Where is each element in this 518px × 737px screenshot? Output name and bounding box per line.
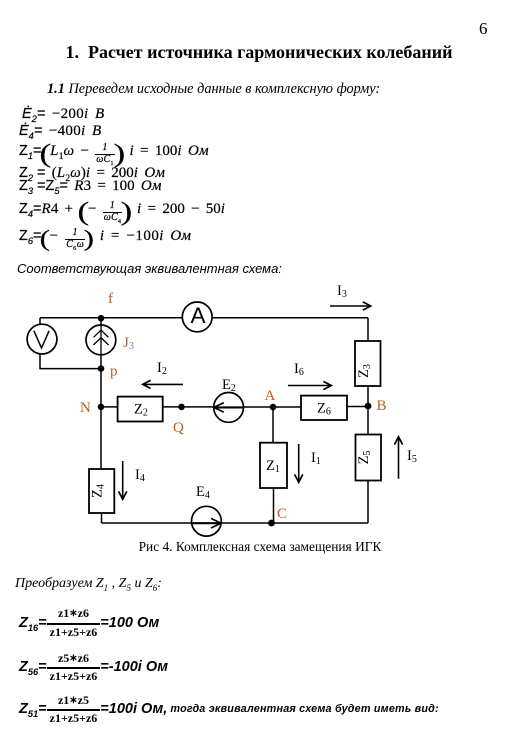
svg-text:E2: E2 <box>222 377 236 394</box>
voltmeter V glyph <box>34 331 49 348</box>
svg-text:A: A <box>190 303 205 328</box>
current source J3 arrows <box>93 325 108 355</box>
svg-text:I1: I1 <box>311 450 321 467</box>
current arrow I5 <box>398 439 400 479</box>
source E2 arrow <box>214 406 243 408</box>
svg-text:Z5: Z5 <box>356 451 373 465</box>
resistor Z6 box <box>301 396 347 420</box>
formula Z6 <box>19 226 191 252</box>
schematic intro <box>17 261 282 276</box>
node C junction dot <box>268 520 275 527</box>
svg-text:I5: I5 <box>407 448 417 465</box>
node f junction dot <box>98 315 105 322</box>
source E4 circle <box>192 506 222 536</box>
wire node A down to Z1 <box>272 407 274 443</box>
node A junction dot <box>270 404 277 411</box>
wire top (f rail) <box>40 317 368 319</box>
wire Z5 to bottom rail <box>367 481 369 524</box>
svg-text:C: C <box>277 506 287 522</box>
section 1.1 heading <box>47 81 380 98</box>
svg-text:B: B <box>377 398 387 414</box>
wire right column top <box>367 318 369 341</box>
wire voltmeter bottom branch to node p <box>40 353 101 369</box>
current source J3 circle <box>86 325 116 355</box>
svg-text:I3: I3 <box>337 283 347 300</box>
svg-text:J3: J3 <box>123 335 134 352</box>
current arrow I1 <box>298 444 300 481</box>
resistor Z3 box <box>355 341 381 386</box>
wire node B to Z5 <box>367 406 369 435</box>
resistor Z1 box <box>260 443 287 488</box>
wire Z6 to node B <box>347 406 368 408</box>
wire Z1 to node C <box>273 488 275 523</box>
equation Z56 <box>19 647 168 687</box>
node B junction dot <box>365 403 372 410</box>
wire E2 to Z6 through node A <box>243 406 301 408</box>
formula E2 <box>22 105 104 123</box>
formula Z3 <box>19 177 162 195</box>
node p junction dot <box>98 365 105 372</box>
svg-text:Z3: Z3 <box>356 364 373 378</box>
equation Z16 <box>19 603 159 643</box>
resistor Z4 box <box>89 469 114 513</box>
current arrow I2 <box>145 383 184 385</box>
formula Z4 <box>19 197 225 227</box>
resistor Z2 box <box>118 397 163 422</box>
current arrow I6 <box>288 385 330 387</box>
ammeter A1 <box>182 302 212 332</box>
page number <box>479 19 488 39</box>
node Q junction dot <box>178 404 185 411</box>
title <box>0 42 518 63</box>
voltmeter V1 <box>27 324 57 354</box>
wire Z3 to node B <box>367 386 369 406</box>
equation Z51 <box>19 689 439 729</box>
formula Z1 <box>19 139 209 169</box>
svg-text:f: f <box>108 291 113 307</box>
wire Z4 bottom stub <box>101 513 103 523</box>
wire bottom rail <box>102 522 369 524</box>
svg-text:I4: I4 <box>135 467 145 484</box>
svg-text:I6: I6 <box>294 361 304 378</box>
transform heading <box>15 576 162 592</box>
formula Z2 <box>19 164 165 182</box>
formula E4 <box>19 122 101 140</box>
svg-text:I2: I2 <box>157 360 167 377</box>
wire N to Z2 <box>101 406 118 408</box>
wire Z2 to E2 through node Q <box>163 406 214 408</box>
svg-text:Q: Q <box>173 420 184 436</box>
wire voltmeter top branch <box>39 318 41 325</box>
current arrow I3 <box>330 305 369 307</box>
svg-text:E4: E4 <box>196 484 210 501</box>
wire left column <box>100 318 102 469</box>
node N junction dot <box>98 404 105 411</box>
svg-text:N: N <box>80 400 91 416</box>
current arrow I4 <box>122 461 124 498</box>
svg-text:Z4: Z4 <box>90 484 107 498</box>
svg-text:p: p <box>110 364 118 380</box>
figure caption <box>0 539 518 555</box>
source E2 circle <box>214 393 244 423</box>
svg-text:A: A <box>265 388 276 404</box>
source E4 arrow <box>192 522 221 524</box>
resistor Z5 box <box>356 435 382 481</box>
